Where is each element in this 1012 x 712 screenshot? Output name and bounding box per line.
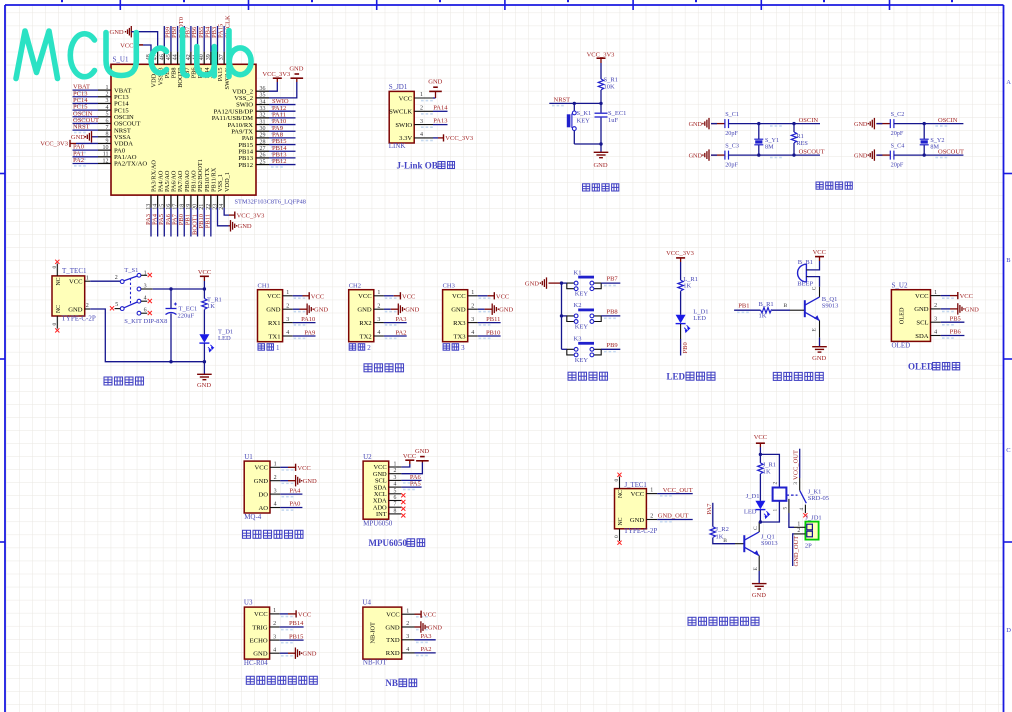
wire T_R1 to T_D1 [203, 310, 205, 335]
svg-text:VCC: VCC [423, 612, 436, 619]
switch pin5 stub nc [115, 308, 121, 310]
svg-text:25: 25 [260, 159, 266, 165]
resistor S_R1 [598, 79, 603, 90]
wire net PB3 top [210, 26, 212, 52]
junction bottom rail [169, 360, 172, 363]
wire net PA1 [73, 156, 99, 158]
ground U1 [296, 475, 302, 486]
svg-text:3: 3 [106, 98, 109, 104]
wire CH2 vcc [384, 295, 394, 297]
svg-text:PB15: PB15 [289, 633, 303, 640]
wire net PB14 [269, 150, 296, 152]
resistor T_R1 [202, 299, 207, 310]
junction reset bottom [599, 142, 602, 145]
wire gnd to trunk [549, 282, 562, 284]
wire net PA0 [73, 149, 99, 151]
wire net PA4 bottom [157, 208, 159, 237]
wire net PA14 [433, 110, 448, 112]
U2 pin 3 SCL [389, 479, 402, 481]
svg-text:3: 3 [274, 488, 277, 494]
svg-text:RX2: RX2 [359, 320, 371, 327]
svg-text:VCC: VCC [254, 611, 268, 618]
wire gnd to C1 [711, 123, 725, 125]
CH1 pin 3 RX1 [283, 322, 293, 324]
svg-text:S_C2: S_C2 [891, 111, 905, 118]
svg-text:NRST: NRST [73, 124, 90, 131]
wire resistor to base [772, 309, 790, 311]
wire U1 gnd [280, 480, 288, 482]
wire U4 gnd [415, 626, 421, 628]
power port VCC_3V3 mcu pin36 [273, 77, 282, 79]
ground buzzer [812, 347, 827, 352]
caption crystal circuit [816, 182, 823, 189]
caption ultrasonic module [246, 676, 254, 684]
tec1 shield pin top [56, 264, 58, 276]
svg-text:2: 2 [86, 303, 89, 309]
svg-text:TYPE-C-2P: TYPE-C-2P [62, 315, 96, 323]
svg-text:S_K1: S_K1 [577, 110, 592, 117]
U4 pin 3 TXD [402, 639, 415, 641]
mcu pin 22 PB11/RX [210, 195, 212, 208]
svg-text:PB10: PB10 [486, 329, 500, 336]
relay switch common pin [799, 478, 801, 490]
mcu pin 33 PA12/USB/DP [256, 110, 269, 112]
svg-text:LED: LED [744, 508, 757, 515]
svg-text:ECHO: ECHO [250, 637, 268, 644]
svg-text:2: 2 [115, 275, 118, 281]
caption button circuit [568, 372, 576, 380]
svg-text:KEY: KEY [577, 117, 591, 124]
svg-text:2: 2 [106, 92, 109, 98]
mcu pin 23 VSS_1 [217, 195, 219, 208]
ground CH3 [492, 304, 498, 315]
svg-text:1: 1 [273, 608, 276, 614]
svg-text:0: 0 [52, 266, 58, 269]
key S_K1 reset button [573, 103, 575, 111]
ground mcu VSSA [85, 131, 91, 142]
caption serial 1 [258, 344, 265, 351]
svg-text:1K: 1K [207, 303, 215, 310]
mcu pin 36 VDD_2 [256, 90, 269, 92]
wire net PB12 [269, 164, 296, 166]
svg-text:VCC: VCC [813, 249, 826, 256]
mcu pin 10 PA0 [98, 149, 111, 151]
mcu pin 32 PA11/USB/DM [256, 117, 269, 119]
relay switch pin4 [804, 505, 806, 513]
ground CH2 [398, 304, 404, 315]
wire T_EC1 to rail [170, 314, 172, 362]
svg-text:1: 1 [773, 509, 779, 512]
svg-text:SWIO: SWIO [395, 122, 412, 129]
oled pin 1 VCC [931, 295, 941, 297]
svg-text:CH1: CH1 [258, 283, 270, 290]
svg-text:20pF: 20pF [725, 161, 738, 168]
wire collector pin [819, 287, 821, 297]
svg-text:NB-IOT: NB-IOT [370, 622, 377, 643]
svg-text:PA3: PA3 [421, 633, 432, 640]
U3 pin 3 ECHO [270, 639, 280, 641]
mcu pin 21 PB10/TX [203, 195, 205, 208]
svg-text:2: 2 [471, 303, 474, 309]
svg-text:3: 3 [471, 317, 474, 323]
mcu pin 16 PA6/AO [170, 195, 172, 208]
wire net PA9 [269, 130, 296, 132]
U2 pin 5 XCL [389, 493, 402, 495]
svg-text:PA2/TX/AO: PA2/TX/AO [114, 161, 147, 168]
mcu pin 15 PA5/AO [163, 195, 165, 208]
CH1 pin 2 GND [283, 308, 293, 310]
mcu pin 46 PB9 [163, 52, 165, 65]
U1 pin 3 DO [270, 493, 280, 495]
svg-text:GND: GND [689, 153, 703, 160]
svg-text:2: 2 [286, 303, 289, 309]
power port VCC oled [957, 292, 959, 299]
U2 pin 4 SDA [389, 486, 402, 488]
mcu pin 35 VSS_2 [256, 97, 269, 99]
wire tec1 vcc to switch [90, 280, 120, 282]
wire U2 gnd [401, 463, 422, 474]
svg-text:1uF: 1uF [608, 117, 619, 124]
svg-text:PA10: PA10 [301, 316, 315, 323]
mcu pin 42 PB6 [190, 52, 192, 65]
module U2 body [363, 461, 389, 519]
wire U4 vcc [415, 613, 422, 615]
wire net BOOT1 bottom [197, 208, 199, 237]
svg-text:VCC: VCC [267, 293, 281, 300]
svg-text:TX2: TX2 [360, 333, 372, 340]
svg-text:GND: GND [254, 478, 269, 485]
svg-text:KEY: KEY [575, 291, 589, 298]
wire net PA3 bottom [150, 208, 152, 237]
svg-text:10: 10 [103, 145, 109, 151]
wire net PA3 [384, 322, 407, 324]
svg-text:GND: GND [415, 448, 429, 455]
wire jd1 pin2 gnd_out [793, 534, 794, 566]
mcu pin 39 PB3 [210, 52, 212, 65]
svg-text:RXD: RXD [386, 650, 400, 657]
relay coil K1 [773, 488, 787, 501]
power port VCC U2 [405, 459, 414, 461]
junction cap branch [169, 287, 172, 290]
svg-text:PB8: PB8 [606, 309, 617, 316]
wire U1 vcc [280, 466, 288, 468]
capacitor C4 [890, 151, 894, 160]
mcu pin 25 PB12 [256, 164, 269, 166]
wire U3 vcc [280, 613, 288, 615]
svg-text:4: 4 [106, 105, 109, 111]
led T_D1 [199, 334, 213, 351]
caption serial circuit [364, 364, 372, 372]
module U4 body [363, 607, 402, 659]
svg-text:4: 4 [406, 647, 409, 653]
key K3 [567, 349, 601, 355]
connector T_TEC1 body [52, 276, 85, 316]
power port VCC U4 [420, 611, 422, 618]
svg-text:AO: AO [258, 505, 268, 512]
svg-text:GND: GND [302, 651, 316, 658]
wire mcu pin35 to gnd [269, 82, 297, 98]
wire node to cap [600, 103, 602, 112]
resistor J_R2 [710, 527, 715, 538]
wire pin5 to JD1 [789, 513, 794, 527]
svg-text:NC: NC [56, 305, 62, 313]
wire net PA10 [269, 124, 296, 126]
mcu pin 48 VDD_3 [150, 52, 152, 65]
svg-text:TYPE-C-2P: TYPE-C-2P [624, 528, 657, 535]
wire net PA15 top [217, 26, 219, 52]
svg-text:8: 8 [394, 508, 397, 514]
svg-text:BEEP: BEEP [797, 280, 813, 287]
switch pin1 stub nc [141, 274, 147, 276]
svg-text:4: 4 [377, 330, 380, 336]
svg-text:39: 39 [206, 54, 212, 60]
svg-text:GND: GND [197, 382, 211, 389]
ground CH1 [307, 304, 313, 315]
svg-text:40: 40 [199, 54, 205, 60]
svg-text:1: 1 [86, 275, 89, 281]
mcu pin 45 PB8 [170, 52, 172, 65]
svg-text:2: 2 [406, 621, 409, 627]
svg-text:8: 8 [106, 132, 109, 138]
svg-text:VCC: VCC [754, 434, 767, 441]
oled pin 2 GND [931, 308, 941, 310]
svg-text:T_TEC1: T_TEC1 [62, 267, 87, 275]
border zone number stubs top [61, 0, 63, 2]
svg-text:4: 4 [273, 647, 276, 653]
svg-text:2: 2 [367, 344, 371, 352]
svg-text:7: 7 [106, 125, 109, 131]
CH1 pin 1 VCC [283, 295, 293, 297]
svg-text:RES: RES [797, 140, 809, 147]
oled body [891, 290, 930, 342]
CH1 pin 4 TX1 [283, 335, 293, 337]
wire switch pin3 to vcc node [141, 288, 153, 290]
ground mcu VSS_1 [231, 220, 237, 231]
svg-text:1: 1 [377, 290, 380, 296]
svg-text:OSCOUT: OSCOUT [799, 149, 825, 156]
svg-text:GND: GND [914, 306, 929, 313]
svg-text:NRST: NRST [554, 97, 571, 104]
svg-text:VCC_3V3: VCC_3V3 [666, 250, 694, 257]
svg-text:MQ-4: MQ-4 [244, 513, 262, 521]
wire net PA12 [269, 110, 296, 112]
wire net PB9 top [163, 26, 165, 52]
svg-text:3: 3 [273, 634, 276, 640]
wire U3 gnd [280, 652, 288, 654]
svg-text:0: 0 [52, 323, 58, 326]
svg-text:2: 2 [934, 303, 937, 309]
mcu pin 37 SWCLK [223, 52, 225, 65]
wire CH1 gnd [293, 308, 300, 310]
svg-text:TRIG: TRIG [252, 624, 268, 631]
wire mcu pin8 to gnd [92, 136, 99, 138]
U4 pin 1 VCC [402, 613, 415, 615]
svg-text:27: 27 [260, 146, 266, 152]
wire net PB15 [280, 639, 304, 641]
svg-text:8M: 8M [930, 143, 939, 150]
svg-text:OLED: OLED [908, 362, 934, 372]
wire mcu pin36 to vcc [269, 82, 277, 91]
svg-text:6: 6 [106, 118, 109, 124]
svg-text:VCC_OUT: VCC_OUT [663, 487, 693, 494]
svg-text:NB: NB [385, 678, 398, 688]
svg-text:K3: K3 [574, 336, 582, 343]
svg-text:NC: NC [56, 277, 62, 285]
svg-text:46: 46 [159, 54, 165, 60]
svg-text:VCC: VCC [496, 293, 509, 300]
mcu pin 20 PB2/BOOT1 [197, 195, 199, 208]
svg-text:SDA: SDA [915, 333, 928, 340]
mcu pin 8 VSSA [98, 136, 111, 138]
svg-text:PB7: PB7 [606, 276, 618, 283]
wire jd1 pin4 vcc [433, 137, 438, 139]
svg-text:T_S1: T_S1 [124, 267, 138, 274]
CH3 pin 4 TX3 [468, 335, 478, 337]
U2 pin 8 no connect [401, 513, 405, 517]
svg-text:VCC: VCC [254, 465, 268, 472]
mcu pin 44 BOOT0 [177, 52, 179, 65]
mcu pin 26 PB13 [256, 157, 269, 159]
wire net PB5 oled [941, 321, 965, 323]
wire vcc node relay [759, 447, 761, 463]
junction crystal left [757, 122, 760, 125]
power port VCC_3V3 jd1 [443, 134, 445, 141]
ground JD1 pin1 [429, 87, 442, 91]
svg-text:MPU6050: MPU6050 [363, 519, 393, 527]
svg-text:S_JD1: S_JD1 [389, 83, 408, 91]
mcu pin 41 PB5 [197, 52, 199, 65]
wire C3 to OSCOUT [729, 154, 821, 156]
svg-text:PA9: PA9 [304, 329, 315, 336]
svg-text:NC: NC [618, 517, 624, 525]
capacitor T_EC1 [170, 289, 172, 308]
svg-text:2: 2 [377, 303, 380, 309]
mcu pin 2 PC13 [98, 96, 111, 98]
ground mcu VSS_2 [291, 74, 304, 78]
svg-text:PA0: PA0 [289, 501, 300, 508]
svg-text:2: 2 [274, 475, 277, 481]
svg-text:1K: 1K [683, 283, 691, 290]
mcu pin 5 OSCIN [98, 116, 111, 118]
svg-text:GND: GND [357, 307, 372, 314]
svg-text:1: 1 [471, 290, 474, 296]
svg-text:220uF: 220uF [178, 312, 195, 319]
CH3 pin 2 GND [468, 308, 478, 310]
svg-text:S_C1: S_C1 [725, 111, 739, 118]
MCUclub logo [16, 30, 251, 79]
CH2 pin 3 RX2 [374, 322, 384, 324]
U2 pin 6 XDA [389, 500, 402, 502]
switch T_S1 contacts [120, 273, 141, 315]
mcu pin 40 PB4 [203, 52, 205, 65]
caption buzzer circuit [773, 372, 781, 380]
key K1 [567, 283, 601, 289]
key K2 [567, 316, 601, 322]
svg-text:LED: LED [218, 335, 231, 342]
svg-text:2: 2 [273, 621, 276, 627]
U1 pin 1 VCC [270, 466, 280, 468]
svg-text:VCC: VCC [960, 293, 973, 300]
wire net PB15 [269, 144, 296, 146]
border zone ticks top [120, 0, 889, 10]
U3 pin 2 TRIG [270, 626, 280, 628]
svg-text:3: 3 [377, 317, 380, 323]
wire led to junction [759, 510, 761, 522]
wire net PB11 bottom [210, 208, 212, 237]
wire net PB10 [478, 335, 501, 337]
U2 pin 7 ADO [389, 506, 402, 508]
svg-text:VCC: VCC [915, 293, 929, 300]
svg-text:VCC: VCC [69, 279, 83, 286]
svg-text:S_C4: S_C4 [891, 143, 905, 150]
svg-text:PB1: PB1 [738, 302, 749, 309]
svg-text:S_EC1: S_EC1 [608, 110, 626, 117]
module U3 body [244, 607, 269, 659]
mcu pin 14 PA4/AO [157, 195, 159, 208]
mcu pin 24 VDD_1 [223, 195, 225, 208]
svg-text:S_C3: S_C3 [725, 143, 739, 150]
svg-text:3: 3 [461, 344, 465, 352]
wire net NRST [73, 129, 99, 131]
svg-text:20pF: 20pF [725, 130, 738, 137]
wire trunk to K1 [562, 282, 567, 284]
svg-text:2: 2 [394, 468, 397, 474]
svg-text:PA13: PA13 [433, 118, 447, 125]
junction node nrst [573, 102, 576, 105]
svg-text:VCC: VCC [402, 293, 415, 300]
wire net PA11 [269, 117, 296, 119]
power port VCC U1 [295, 464, 297, 471]
svg-text:20pF: 20pF [891, 161, 904, 168]
svg-text:TXD: TXD [386, 637, 400, 644]
wire gnd to C3 [711, 154, 725, 156]
wire emitter pin [819, 321, 821, 338]
svg-text:MPU6050: MPU6050 [369, 538, 408, 548]
svg-text:J_TEC1: J_TEC1 [625, 482, 647, 489]
svg-text:PB12: PB12 [272, 158, 286, 165]
svg-text:VCC: VCC [298, 611, 311, 618]
power port VCC CH3 [493, 292, 495, 299]
svg-text:4: 4 [799, 508, 805, 511]
capacitor C2 [890, 119, 894, 128]
svg-text:B: B [784, 303, 788, 309]
oled pin 3 SCL [931, 321, 941, 323]
junction button trunk [560, 281, 563, 284]
svg-text:2: 2 [797, 528, 800, 534]
wire net PA2 [384, 335, 407, 337]
mcu pin 19 PB1/AO [190, 195, 192, 208]
svg-text:RX3: RX3 [453, 320, 466, 327]
wire K2 to net [601, 315, 620, 317]
svg-text:7: 7 [394, 502, 397, 508]
wire net OSCOUT [73, 122, 99, 124]
wire mcu pin23 to gnd [218, 208, 229, 226]
svg-text:VCC_3V3: VCC_3V3 [40, 141, 68, 148]
svg-text:U4: U4 [362, 599, 371, 607]
jd1 pin1 [794, 526, 805, 528]
connector J_TEC1 body [615, 489, 647, 529]
svg-text:29: 29 [260, 133, 266, 139]
wire net PB14 [280, 626, 304, 628]
CH3 pin 3 RX3 [468, 322, 478, 324]
svg-text:A: A [1006, 79, 1011, 86]
svg-text:GND: GND [253, 651, 268, 658]
mcu pin 13 PA3/RX/AO [150, 195, 152, 208]
wire net PB6 oled [941, 335, 965, 337]
wire rail to gnd [203, 362, 205, 375]
wire C4 to OSCOUT [894, 154, 964, 156]
svg-text:OSCIN: OSCIN [799, 117, 819, 124]
